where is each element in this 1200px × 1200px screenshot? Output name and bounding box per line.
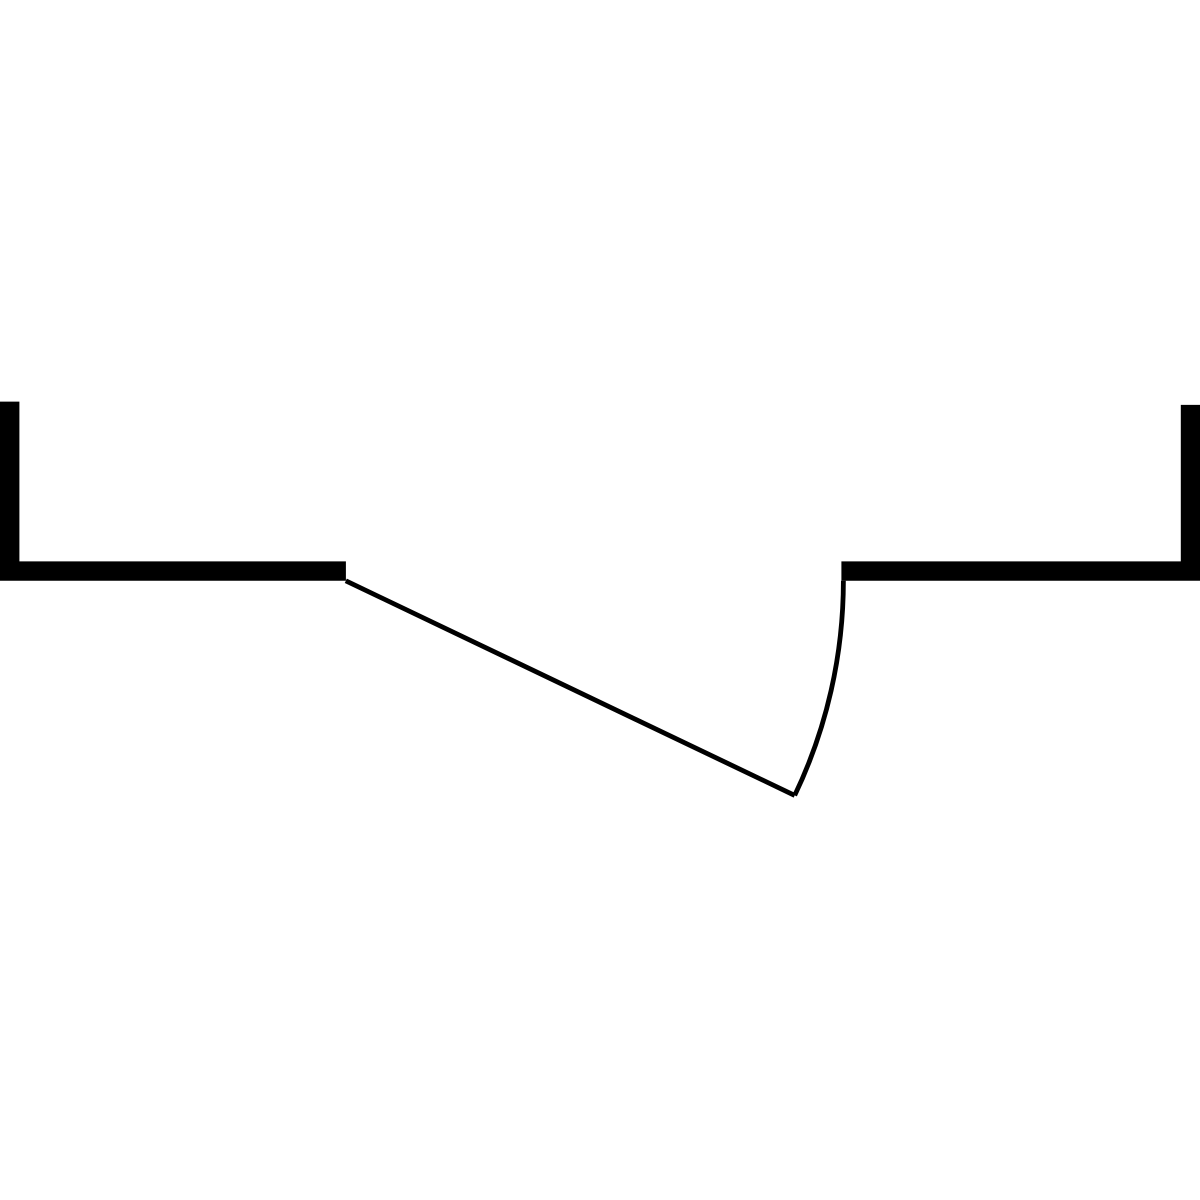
left wall <box>10 402 346 571</box>
door leaf <box>346 581 795 796</box>
door swing arc <box>795 581 844 796</box>
right wall <box>841 405 1190 571</box>
